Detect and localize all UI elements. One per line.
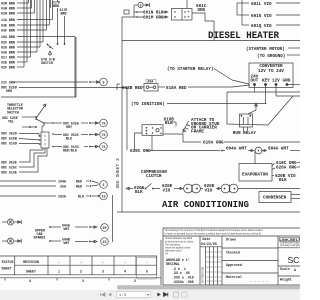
lamp A spare — [2, 240, 7, 242]
connector circle 75 c — [100, 143, 108, 151]
svg-text:WHT: WHT — [64, 227, 70, 231]
svg-text:.XXX ± .010: .XXX ± .010 — [172, 276, 194, 280]
svg-text:03H BRN: 03H BRN — [1, 6, 15, 10]
svg-text:.X ± .1: .X ± .1 — [172, 267, 186, 271]
svg-text:10A BRN: 10A BRN — [1, 35, 15, 39]
svg-text:02M BRN: 02M BRN — [1, 1, 15, 5]
svg-text:-: - — [102, 260, 104, 264]
svg-text:3: 3 — [82, 279, 84, 283]
svg-text:202A: 202A — [58, 194, 66, 198]
wire 202A BLK — [0, 195, 56, 197]
svg-text:ODC 525C: ODC 525C — [1, 166, 17, 170]
connector pair a — [184, 184, 193, 193]
connector circle 15 lower — [100, 192, 108, 200]
svg-text:02E BRN: 02E BRN — [1, 60, 15, 64]
svg-text:15: 15 — [102, 194, 106, 198]
evaporator wires — [272, 163, 275, 166]
svg-text:04/23/96: 04/23/96 — [201, 242, 217, 246]
wire 601M ORG — [136, 16, 138, 18]
wire from box bottom — [151, 135, 153, 150]
svg-text:(TO GROUND): (TO GROUND) — [257, 54, 285, 59]
svg-text:4: 4 — [124, 270, 126, 274]
wire 604A into evap — [254, 151, 256, 164]
svg-text:11A BRN: 11A BRN — [1, 18, 15, 22]
table STATUS SHEET / REVISION — [0, 255, 157, 257]
svg-text:Material: Material — [226, 275, 242, 279]
relay bracket — [227, 92, 293, 125]
svg-text:ORG: ORG — [198, 8, 206, 13]
connector pair b — [221, 184, 230, 193]
svg-text:GRY: GRY — [66, 125, 72, 129]
svg-text:1: 1 — [58, 270, 60, 274]
svg-text:618B RED: 618B RED — [122, 86, 143, 91]
wire 25A RED — [0, 185, 56, 187]
svg-text:otherwise noted: otherwise noted — [165, 250, 182, 253]
svg-text:SPARES: SPARES — [34, 236, 46, 240]
svg-text:RUN RELAY: RUN RELAY — [233, 131, 257, 136]
svg-text:AIR CONDITIONING: AIR CONDITIONING — [162, 199, 249, 210]
svg-text:to return on demand and on the: to return on demand and on the express c… — [165, 232, 263, 235]
svg-text:20A: 20A — [147, 80, 153, 84]
long wire to 10A riser — [1, 96, 76, 98]
button last page — [164, 293, 168, 297]
svg-text:Construction Equip.: Construction Equip. — [280, 242, 300, 245]
svg-text:SCH: SCH — [288, 255, 301, 265]
svg-text:Company Lexington, KY: Company Lexington, KY — [280, 244, 300, 247]
wire 620F BLK — [126, 187, 129, 189]
toolbar background — [0, 291, 300, 300]
svg-text:RED: RED — [76, 179, 82, 183]
relay symbol RUN RELAY — [240, 114, 253, 127]
svg-text:02F BRN: 02F BRN — [1, 65, 15, 69]
svg-text:ODC 916E: ODC 916E — [1, 171, 17, 175]
svg-text:BLK: BLK — [78, 194, 84, 198]
svg-text:GND: GND — [283, 79, 291, 84]
svg-text:601M ORG: 601M ORG — [143, 16, 164, 21]
svg-text:-: - — [58, 260, 60, 264]
button save icon — [182, 292, 187, 297]
svg-text:604A WHT: 604A WHT — [268, 146, 289, 151]
svg-text:REVISION: REVISION — [23, 260, 39, 264]
svg-text:75: 75 — [102, 133, 106, 137]
wire ODC 525A GRY — [44, 122, 53, 124]
ground stud symbol — [183, 121, 189, 132]
svg-text:-: - — [124, 260, 126, 264]
svg-text:A: A — [294, 268, 296, 272]
svg-text:601Q VIO: 601Q VIO — [251, 24, 272, 29]
connector circle 75 a — [100, 119, 108, 127]
svg-text:-: - — [80, 260, 82, 264]
converter box 12V TO 24V — [249, 63, 293, 88]
lamp indicator 3 — [135, 4, 138, 6]
riser wires 617D/617E — [50, 0, 52, 8]
svg-text:SWITCH: SWITCH — [41, 61, 53, 65]
svg-text:BRN: BRN — [53, 4, 59, 8]
title block left divider — [160, 240, 162, 285]
svg-text:all dimensions are in inches: all dimensions are in inches — [165, 240, 194, 243]
svg-text:Approved: Approved — [226, 263, 242, 267]
wire ODC 916C RED/BLK — [54, 146, 62, 148]
wire 12V down — [276, 85, 300, 97]
svg-text:(TO STARTER RELAY): (TO STARTER RELAY) — [167, 67, 213, 72]
svg-text:ODC 525B: ODC 525B — [1, 137, 17, 141]
border zone line — [0, 277, 161, 279]
svg-text:(TO IGNITION): (TO IGNITION) — [131, 102, 165, 107]
svg-text:75: 75 — [102, 121, 106, 125]
svg-text:SEE SHEET 2: SEE SHEET 2 — [115, 158, 121, 189]
svg-text:WHT: WHT — [64, 241, 70, 245]
wire 620D VIO — [201, 188, 204, 190]
svg-text:3: 3 — [140, 3, 142, 7]
svg-text:YEL: YEL — [8, 120, 14, 124]
svg-text:5: 5 — [103, 183, 105, 187]
wire 619A ORG — [163, 134, 201, 142]
svg-text:SWITCH: SWITCH — [7, 110, 19, 114]
wire 620C VIO to edge — [238, 188, 300, 190]
svg-text:ODC 952D: ODC 952D — [1, 132, 17, 136]
svg-text:2: 2 — [134, 279, 136, 283]
sheet divider line — [112, 195, 114, 242]
wire 601L VIO — [237, 2, 249, 4]
svg-text:ORG: ORG — [6, 89, 12, 93]
connector circle 5 lower — [98, 183, 100, 185]
svg-text:This drawing is the property o: This drawing is the property of Link-Bel… — [165, 229, 264, 232]
condenser box — [259, 192, 291, 203]
svg-text:EVAPORATOR: EVAPORATOR — [242, 172, 268, 177]
button next page — [157, 293, 161, 297]
switch 5TH O/B SWITCH — [47, 44, 49, 46]
svg-text:.XX ± .05: .XX ± .05 — [172, 271, 190, 275]
svg-text:03G BRN: 03G BRN — [1, 50, 15, 54]
svg-text:VIO: VIO — [205, 188, 213, 193]
svg-text:BLK: BLK — [279, 178, 287, 183]
svg-text:BRN: BRN — [61, 11, 67, 15]
svg-text:20: 20 — [103, 226, 107, 230]
svg-text:+: + — [188, 10, 190, 14]
svg-text:DECIMAL: DECIMAL — [166, 262, 180, 266]
svg-text:12V: 12V — [272, 79, 280, 84]
title block outline — [163, 227, 300, 229]
svg-text:12V TO 24V: 12V TO 24V — [258, 69, 284, 74]
connector block heater — [172, 9, 193, 21]
connector circle 75 b — [100, 131, 108, 139]
svg-text:+: + — [188, 15, 190, 19]
svg-text:Scale: Scale — [280, 267, 290, 271]
wire 601N BLK — [133, 5, 135, 17]
svg-text:DIESEL HEATER: DIESEL HEATER — [208, 30, 280, 42]
svg-text:03E BRN: 03E BRN — [1, 23, 15, 27]
wire 006A sh7 to circle 20 — [49, 226, 51, 228]
wire GND to edge — [287, 84, 300, 86]
distribution grid — [205, 247, 207, 285]
svg-text:The tolerances: The tolerances — [165, 243, 181, 246]
svg-text:02G BRN: 02G BRN — [1, 45, 15, 49]
fuse 20A — [117, 83, 120, 85]
svg-text:RED: RED — [76, 184, 82, 188]
svg-text:OUT: OUT — [251, 79, 259, 84]
wire 601G VIO — [237, 14, 249, 16]
svg-text:619C ORG: 619C ORG — [130, 149, 151, 154]
svg-text:- - - - -: - - - - - — [250, 280, 268, 284]
button prev page — [108, 293, 111, 297]
svg-text:SHEET: SHEET — [26, 270, 36, 274]
svg-text:CONDENSER: CONDENSER — [263, 196, 287, 201]
svg-text:15: 15 — [103, 240, 107, 244]
svg-text:ODC 916D: ODC 916D — [1, 142, 17, 146]
svg-text:SHEET: SHEET — [2, 267, 12, 271]
wire 500B sh7 to circle 15 — [49, 240, 51, 242]
svg-text:CLUTCH: CLUTCH — [146, 174, 162, 179]
svg-text:3: 3 — [102, 270, 104, 274]
svg-text:1 / 5: 1 / 5 — [119, 293, 126, 297]
svg-text:601G VIO: 601G VIO — [251, 14, 272, 19]
svg-text:Tol:: Tol: — [165, 254, 169, 256]
svg-text:02J BRN: 02J BRN — [1, 55, 15, 59]
svg-text:RED/BLK: RED/BLK — [63, 149, 77, 153]
svg-text:02H BRN: 02H BRN — [1, 11, 15, 15]
svg-text:601L VIO: 601L VIO — [251, 2, 272, 7]
svg-text:(STARTER MOTOR): (STARTER MOTOR) — [246, 47, 285, 52]
svg-text:Unless otherwise specified: Unless otherwise specified — [165, 237, 193, 240]
svg-text:75: 75 — [102, 145, 106, 149]
svg-text:21C ORG: 21C ORG — [1, 80, 15, 84]
svg-text:104A: 104A — [58, 179, 66, 183]
svg-text:03F BRN: 03F BRN — [1, 28, 15, 32]
svg-text:below are applied unless: below are applied unless — [165, 247, 191, 250]
lamp P spare — [2, 221, 7, 223]
svg-text:2: 2 — [80, 270, 82, 274]
svg-text:ODC 952E: ODC 952E — [1, 161, 17, 165]
connector circle 5 — [100, 78, 108, 86]
wire converter out down — [227, 88, 255, 93]
svg-text:02F BRN: 02F BRN — [1, 40, 15, 44]
page input box 1 / 5 — [117, 292, 151, 298]
wire 601Q VIO — [241, 0, 243, 25]
svg-text:.XXXX± .005: .XXXX± .005 — [172, 280, 194, 284]
svg-text:Checked: Checked — [226, 251, 240, 255]
svg-text:FRAME: FRAME — [191, 129, 204, 134]
svg-text:STATUS: STATUS — [2, 260, 14, 264]
wire ODC 952C BLK — [54, 134, 62, 136]
svg-text:KEY: KEY — [262, 79, 270, 84]
svg-text:618A RED: 618A RED — [166, 86, 187, 91]
svg-text:DISTRIBUTION: DISTRIBUTION — [202, 266, 204, 283]
svg-text:4: 4 — [29, 279, 31, 283]
highlight box last column — [137, 258, 157, 280]
svg-text:Date: Date — [203, 237, 211, 241]
svg-text:BLK: BLK — [135, 190, 143, 195]
connector block J1 — [41, 132, 49, 148]
wire 104A RED — [0, 180, 56, 182]
svg-text:Weight: Weight — [280, 278, 292, 282]
svg-text:5: 5 — [146, 270, 148, 274]
evaporator box — [239, 164, 272, 182]
svg-text:BLK: BLK — [66, 137, 72, 141]
button copy icon — [174, 292, 179, 297]
clutch switch contact — [145, 188, 147, 190]
svg-text:619A ORG: 619A ORG — [203, 141, 224, 146]
svg-text:5: 5 — [103, 80, 105, 84]
svg-text:604A WHT: 604A WHT — [226, 146, 247, 151]
svg-text:Drawn: Drawn — [226, 238, 236, 242]
connector block run box — [142, 125, 163, 136]
svg-text:620A ORG: 620A ORG — [276, 166, 297, 171]
button first page — [101, 293, 105, 297]
scrollbar thumb — [117, 285, 300, 289]
svg-text:VIO: VIO — [163, 188, 171, 193]
right sheet border — [121, 17, 123, 212]
svg-text:-: - — [146, 260, 148, 264]
wire from box left — [135, 133, 143, 151]
svg-text:25A: 25A — [60, 184, 66, 188]
